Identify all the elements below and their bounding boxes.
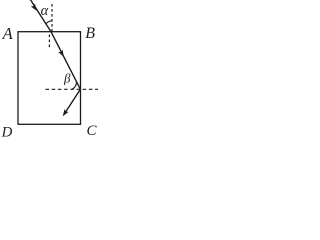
normal (dashed) at right surface bbox=[46, 88, 99, 90]
incident ray arrowhead bbox=[31, 4, 37, 11]
normal (dashed) at top surface, below bbox=[48, 35, 50, 50]
glass block ABCD bbox=[18, 32, 81, 125]
svg-text:A: A bbox=[2, 24, 14, 43]
refracted ray arrowhead bbox=[58, 50, 63, 57]
svg-text:β: β bbox=[63, 70, 71, 85]
angle beta arc bbox=[72, 82, 77, 90]
reflected ray bbox=[64, 89, 81, 114]
svg-text:D: D bbox=[1, 125, 13, 139]
reflected ray arrowhead bbox=[63, 109, 69, 116]
svg-text:C: C bbox=[87, 123, 98, 138]
svg-text:B: B bbox=[85, 25, 95, 42]
angle alpha arc bbox=[46, 21, 53, 24]
incident ray bbox=[30, 0, 51, 32]
refracted ray inside block bbox=[51, 32, 80, 90]
svg-text:α: α bbox=[41, 3, 49, 19]
normal (dashed) at top surface, above bbox=[51, 4, 53, 32]
